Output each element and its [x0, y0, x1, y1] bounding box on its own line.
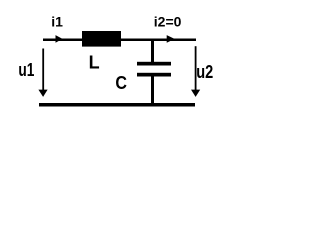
wire top horizontal — [43, 39, 196, 42]
wire bottom horizontal — [39, 103, 195, 107]
svg-text:i2=0: i2=0 — [154, 13, 182, 29]
voltage arrow u2 — [195, 46, 197, 90]
current arrow i2 — [167, 35, 175, 43]
svg-text:i1: i1 — [51, 13, 63, 29]
svg-text:u2: u2 — [196, 62, 213, 82]
svg-text:L: L — [89, 53, 100, 73]
capacitor C plates — [137, 62, 171, 66]
inductor L — [82, 31, 121, 47]
wire capacitor bottom lead — [151, 77, 154, 104]
voltage arrow u1 — [42, 49, 44, 91]
current arrow i1 — [56, 35, 63, 43]
wire capacitor top lead — [151, 41, 154, 63]
svg-text:C: C — [115, 73, 127, 93]
svg-text:u1: u1 — [18, 60, 34, 80]
